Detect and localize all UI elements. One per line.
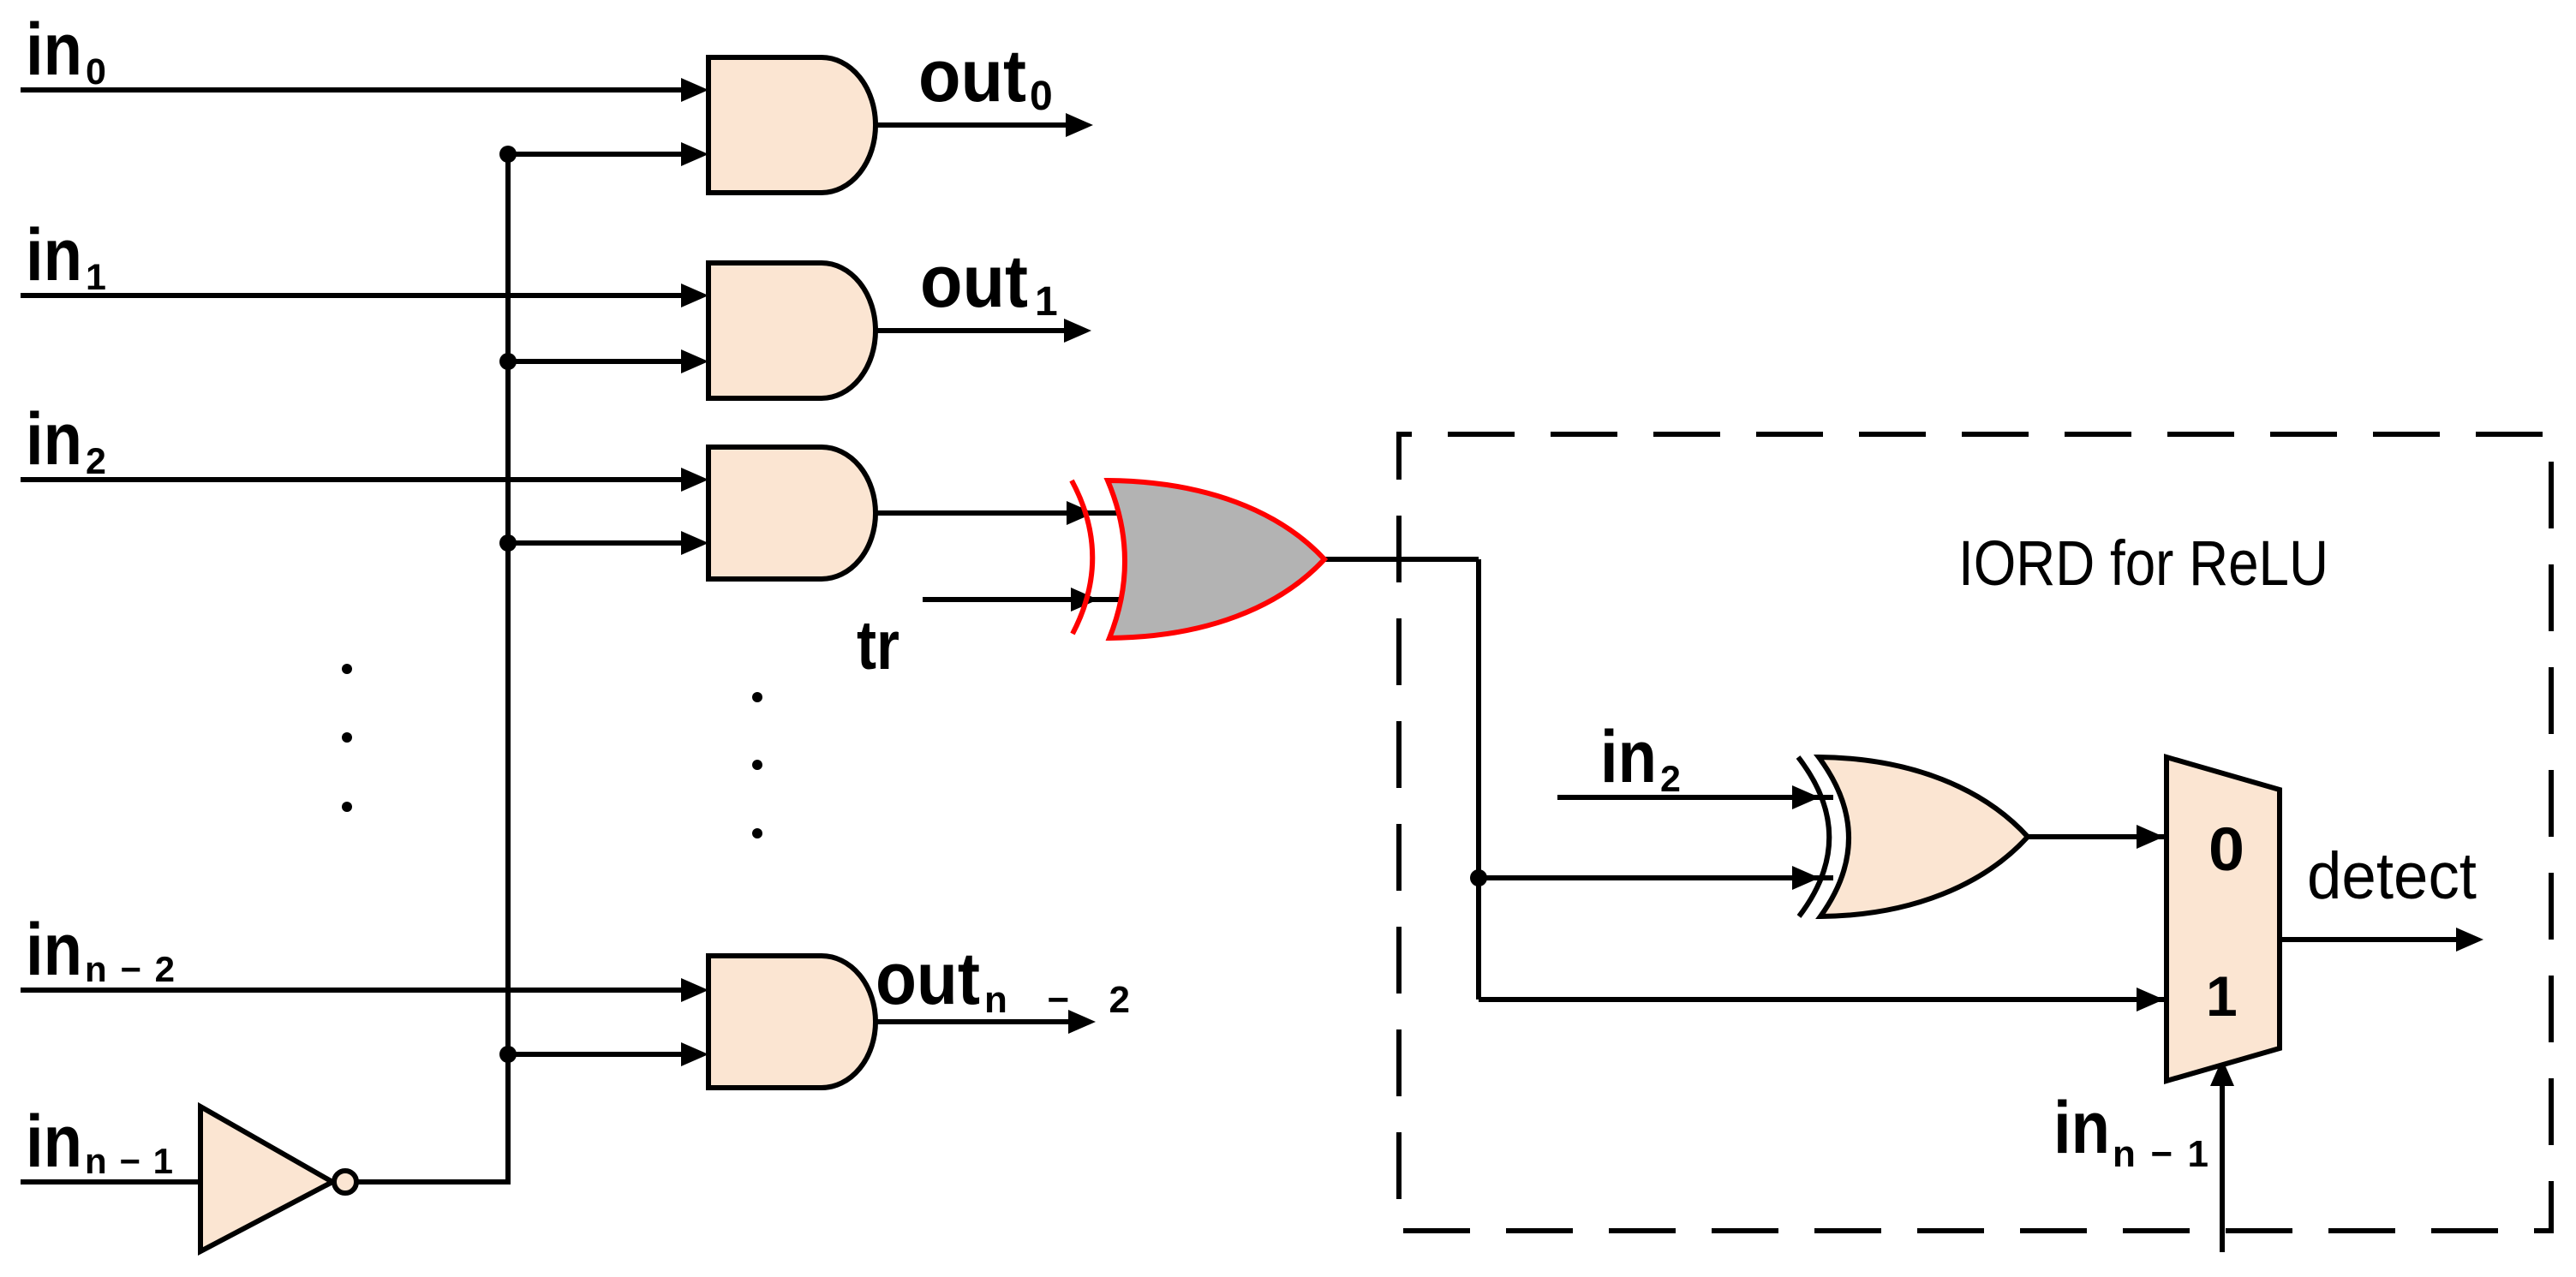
svg-text:in: in (26, 9, 82, 91)
svg-text:0: 0 (1030, 74, 1053, 119)
svg-text:in: in (26, 1101, 82, 1183)
svg-text:1: 1 (86, 257, 106, 298)
svg-text:1: 1 (1035, 279, 1058, 325)
svg-text:out: out (876, 938, 980, 1020)
svg-text:0: 0 (2208, 816, 2244, 884)
svg-text:in: in (1600, 716, 1657, 798)
svg-text:IORD for ReLU: IORD for ReLU (1958, 528, 2328, 599)
svg-text:tr: tr (857, 607, 900, 684)
svg-text:0: 0 (86, 51, 106, 92)
svg-text:in: in (26, 909, 82, 991)
svg-text:2: 2 (1660, 759, 1681, 800)
svg-text:detect: detect (2307, 839, 2477, 913)
svg-text:out: out (920, 241, 1028, 323)
svg-text:in: in (26, 398, 82, 480)
svg-text:n−2: n−2 (85, 949, 175, 989)
svg-text:in: in (26, 214, 82, 296)
svg-text:out: out (918, 35, 1026, 117)
svg-text:n−1: n−1 (2113, 1133, 2208, 1175)
svg-text:in: in (2053, 1087, 2110, 1169)
svg-text:2: 2 (86, 441, 106, 482)
svg-text:n−1: n−1 (85, 1141, 173, 1181)
svg-text:1: 1 (2206, 964, 2238, 1028)
